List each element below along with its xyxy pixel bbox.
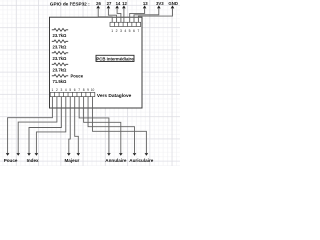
svg-text:27: 27 — [107, 1, 112, 6]
connector J1 body (7 pins) — [110, 22, 141, 26]
wire GND to pin7 — [138, 9, 172, 23]
svg-text:GPIO de l’ESP32 :: GPIO de l’ESP32 : — [50, 2, 90, 7]
arrow up GPIO26 — [96, 5, 100, 8]
wire GPIO26 to pin1 — [98, 9, 112, 23]
svg-text:4: 4 — [65, 88, 67, 92]
svg-text:3V3: 3V3 — [156, 1, 164, 6]
wire pin7 to Annulaire L — [79, 97, 109, 153]
J2 pin numbers 1-10 — [52, 88, 95, 92]
wire pin5 to Majeur L — [69, 97, 70, 153]
svg-text:7: 7 — [78, 88, 80, 92]
wire pin9 to Auriculaire L — [88, 97, 134, 153]
svg-text:Pouce: Pouce — [4, 158, 18, 163]
wire 3V3 to pin6 — [134, 9, 159, 23]
svg-text:7: 7 — [137, 29, 139, 33]
wire pin6 to Majeur R — [75, 97, 79, 153]
svg-text:Pouce: Pouce — [71, 74, 84, 79]
arrow down Annulaire L — [107, 153, 111, 156]
wire pin3 to Index L — [29, 97, 61, 153]
svg-text:13: 13 — [143, 1, 148, 6]
svg-text:23.7kΩ: 23.7kΩ — [53, 56, 67, 61]
svg-text:GND: GND — [168, 1, 178, 6]
svg-text:12: 12 — [122, 1, 127, 6]
svg-text:6: 6 — [74, 88, 76, 92]
arrow down Index R — [35, 153, 39, 156]
svg-text:Auriculaire: Auriculaire — [129, 158, 153, 163]
arrow down Index L — [27, 153, 31, 156]
resistor R3 23.7k — [52, 51, 68, 54]
svg-text:Majeur: Majeur — [64, 158, 79, 163]
svg-text:2: 2 — [116, 29, 118, 33]
connector J2 cells — [55, 92, 91, 96]
svg-text:10: 10 — [91, 88, 95, 92]
wire pin10 to Auriculaire R — [93, 97, 147, 153]
arrow down Majeur R — [77, 153, 81, 156]
svg-text:14: 14 — [116, 1, 121, 6]
svg-text:26: 26 — [96, 1, 101, 6]
svg-text:5: 5 — [69, 88, 71, 92]
svg-text:23.7kΩ: 23.7kΩ — [53, 45, 67, 50]
PCB intermediaire label box — [96, 55, 134, 61]
wire GPIO27 to pin2 — [108, 9, 116, 23]
wire pin8 to Annulaire R — [84, 97, 121, 153]
arrow down Pouce L — [6, 153, 10, 156]
arrow down Majeur L — [67, 153, 71, 156]
svg-text:Vers Dataglove: Vers Dataglove — [97, 93, 132, 99]
resistor R4 23.7k — [52, 63, 68, 66]
background graph grid — [0, 0, 180, 166]
svg-text:5: 5 — [129, 29, 131, 33]
svg-text:6: 6 — [133, 29, 135, 33]
arrow up 3V3 — [157, 5, 161, 8]
svg-text:3: 3 — [120, 29, 122, 33]
resistor R2 23.7k — [52, 40, 68, 43]
svg-text:23.7kΩ: 23.7kΩ — [53, 68, 67, 73]
svg-text:2: 2 — [56, 88, 58, 92]
resistor R1 23.7k — [52, 28, 68, 31]
svg-text:3: 3 — [60, 88, 62, 92]
wire GPIO12 to pin4 — [123, 9, 125, 23]
svg-text:9: 9 — [87, 88, 89, 92]
arrow up GPIO13 — [143, 5, 147, 8]
svg-text:71.5kΩ: 71.5kΩ — [53, 79, 67, 84]
svg-text:Index: Index — [27, 158, 39, 163]
PCB intermediaire box — [50, 17, 143, 108]
connector J2 body (10 pins) — [50, 92, 95, 96]
arrow down Annulaire R — [119, 153, 123, 156]
wire pin1 to Pouce L — [8, 97, 53, 153]
arrow up GPIO27 — [107, 5, 111, 8]
svg-text:23.7kΩ: 23.7kΩ — [53, 33, 67, 38]
wire pin2 to Pouce R — [18, 97, 57, 153]
svg-text:8: 8 — [83, 88, 85, 92]
wire pin4 to Index R — [36, 97, 65, 153]
J1 pin numbers 1-7 — [111, 29, 139, 33]
arrow down Auriculaire L — [133, 153, 137, 156]
wire GPIO14 to pin3 — [117, 9, 121, 23]
wire GPIO13 to pin5 — [130, 9, 145, 23]
arrow up GPIO14 — [115, 5, 119, 8]
arrow down Pouce R — [16, 153, 20, 156]
arrow down Auriculaire R — [145, 153, 149, 156]
arrow up GND — [171, 5, 175, 8]
svg-text:1: 1 — [111, 29, 113, 33]
svg-text:Annulaire: Annulaire — [105, 158, 127, 163]
svg-text:1: 1 — [52, 88, 54, 92]
connector J1 cells — [114, 22, 136, 26]
resistor R5 71.5k Pouce — [52, 74, 68, 77]
arrow up GPIO12 — [122, 5, 126, 8]
svg-text:4: 4 — [124, 29, 126, 33]
svg-text:PCB intermédiaire: PCB intermédiaire — [96, 56, 134, 61]
